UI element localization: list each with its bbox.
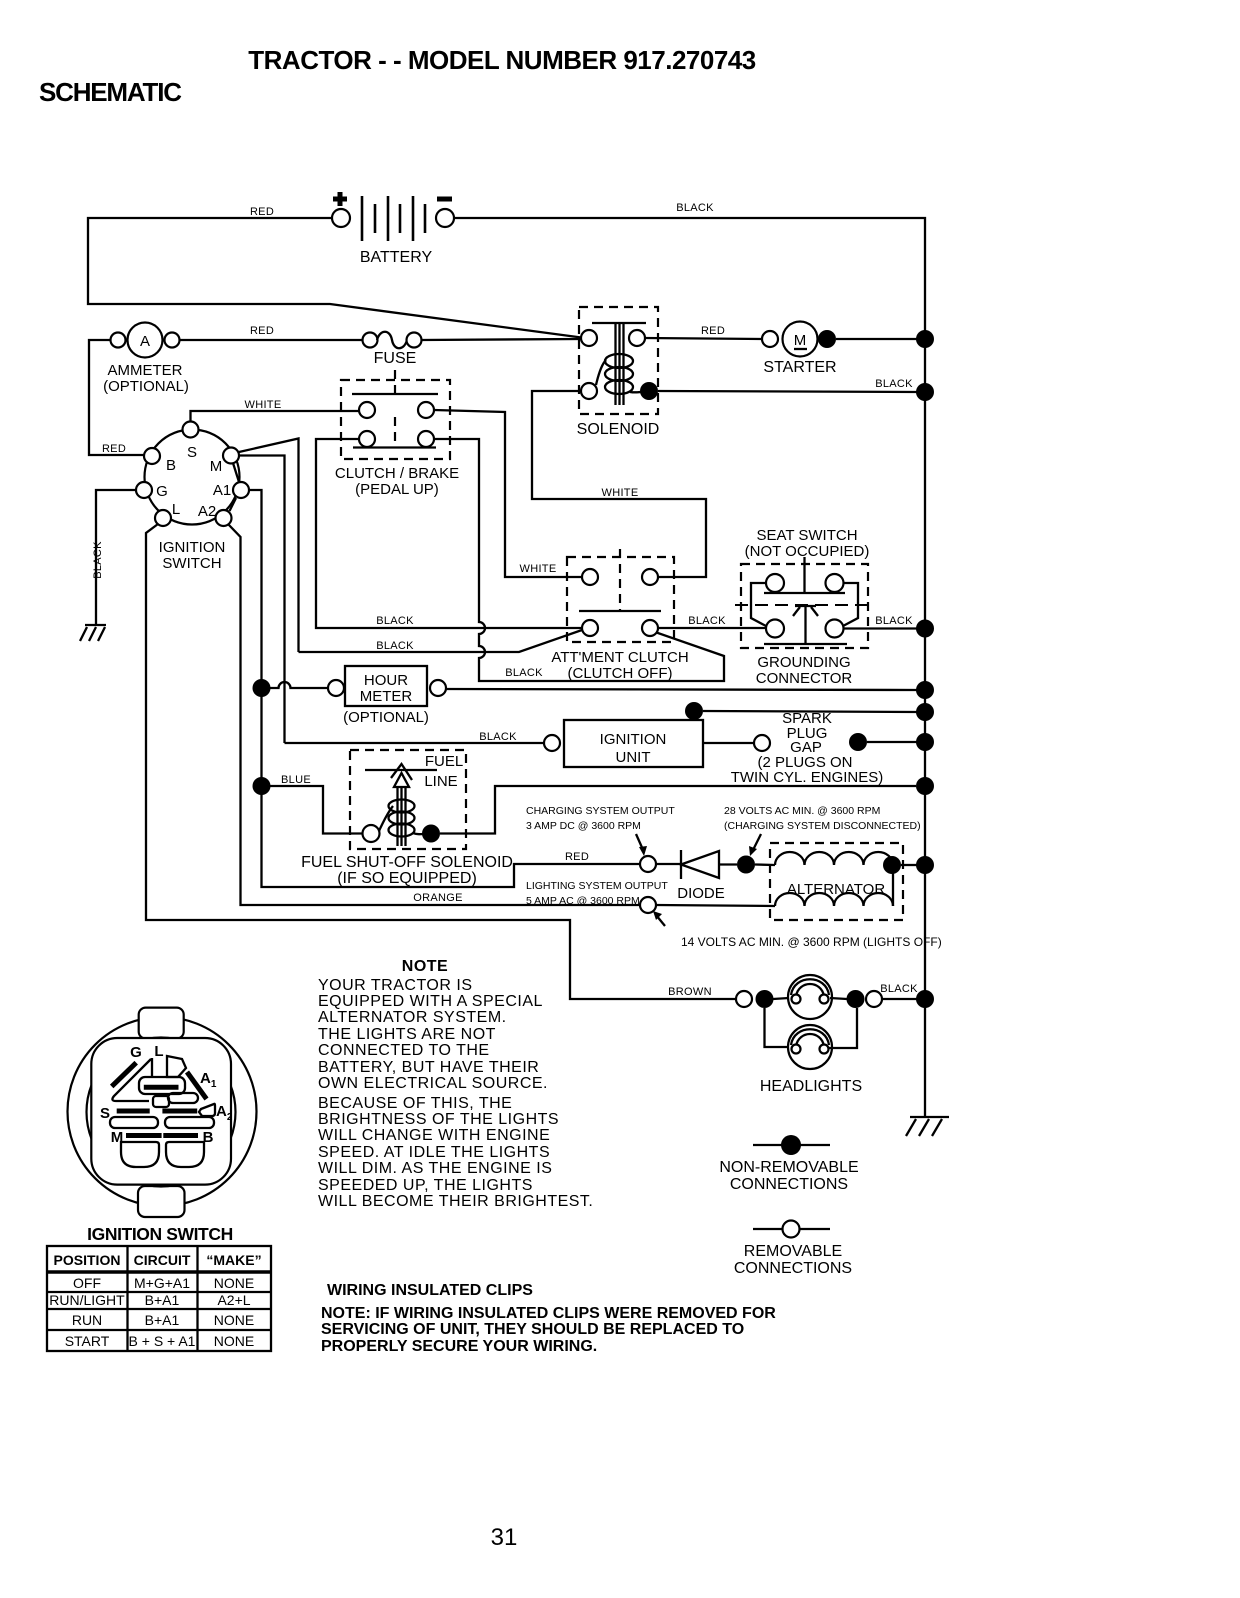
svg-text:S: S [187, 444, 197, 461]
svg-text:B: B [166, 457, 176, 474]
svg-text:(PEDAL UP): (PEDAL UP) [355, 481, 439, 498]
note text block [318, 958, 593, 1210]
wire battery negative BLACK to starter bus [454, 202, 925, 339]
svg-text:14 VOLTS AC MIN. @ 3600 RPM (L: 14 VOLTS AC MIN. @ 3600 RPM (LIGHTS OFF) [681, 935, 942, 949]
label wiring insulated clips [321, 1282, 776, 1355]
label lighting system output [526, 880, 668, 907]
svg-text:EQUIPPED WITH A SPECIAL: EQUIPPED WITH A SPECIAL [318, 993, 543, 1010]
svg-text:RED: RED [250, 206, 274, 218]
attachment clutch switch (clutch off) [551, 549, 688, 682]
headlight connector removable [736, 991, 752, 1007]
svg-text:SEAT SWITCH: SEAT SWITCH [756, 527, 857, 544]
svg-text:RED: RED [102, 443, 126, 455]
ground left [80, 625, 106, 641]
svg-text:IGNITION: IGNITION [600, 731, 667, 748]
svg-text:A2: A2 [198, 503, 216, 520]
svg-text:CHARGING SYSTEM OUTPUT: CHARGING SYSTEM OUTPUT [526, 805, 675, 817]
svg-text:BLACK: BLACK [688, 615, 726, 627]
wire M to A1 link [233, 463, 239, 482]
label 14 volts [653, 911, 942, 949]
clutch brake switch (pedal up) [335, 370, 459, 498]
headlight 2 [788, 1025, 832, 1069]
starter motor M [762, 322, 837, 377]
diode D1 [656, 850, 737, 902]
wire solenoid to starter RED [645, 325, 762, 339]
svg-text:SOLENOID: SOLENOID [577, 421, 660, 438]
svg-text:RUN: RUN [72, 1312, 102, 1328]
svg-text:B: B [203, 1129, 214, 1146]
svg-text:BLACK: BLACK [376, 615, 414, 627]
wire hour meter to bus [446, 689, 917, 690]
svg-text:(OPTIONAL): (OPTIONAL) [343, 709, 429, 726]
svg-text:M+G+A1: M+G+A1 [134, 1275, 190, 1291]
solenoid K1 [577, 307, 660, 438]
junction bus hour meter [916, 681, 934, 699]
legend removable connections [734, 1221, 852, 1278]
wire ignition unit output to spark gap [703, 735, 770, 751]
headlight connector removable right [866, 991, 882, 1007]
fuel shut-off solenoid [301, 750, 513, 887]
wire seat switch to bus BLACK [843, 615, 917, 629]
svg-text:CONNECTOR: CONNECTOR [756, 670, 853, 687]
wire G terminal BLACK to ground [92, 490, 136, 625]
battery BT1 [332, 192, 454, 266]
label spark plug gap [731, 710, 884, 786]
svg-text:BLACK: BLACK [376, 640, 414, 652]
svg-text:SPEEDED UP, THE LIGHTS: SPEEDED UP, THE LIGHTS [318, 1177, 533, 1194]
svg-text:BECAUSE OF THIS, THE: BECAUSE OF THIS, THE [318, 1095, 512, 1112]
wire solenoid coil to bus BLACK [658, 378, 917, 392]
junction diode alternator dot [737, 856, 755, 874]
svg-text:A2+L: A2+L [217, 1292, 250, 1308]
svg-text:(OPTIONAL): (OPTIONAL) [103, 378, 189, 395]
junction solenoid coil dot [640, 382, 658, 400]
wire fuel solenoid to bus [440, 786, 916, 834]
svg-text:REMOVABLE: REMOVABLE [744, 1243, 842, 1260]
svg-text:WHITE: WHITE [245, 399, 282, 411]
svg-text:WILL BECOME THEIR BRIGHTEST.: WILL BECOME THEIR BRIGHTEST. [318, 1193, 593, 1210]
fuse F1 [363, 332, 422, 367]
svg-text:HOUR: HOUR [364, 672, 408, 689]
junction bus starter [916, 330, 934, 348]
ignition switch SW1 (schematic) [136, 422, 249, 573]
svg-text:BLACK: BLACK [505, 667, 543, 679]
svg-text:ALTERNATOR: ALTERNATOR [787, 881, 886, 898]
wire attachment clutch to seat switch BLACK [658, 615, 767, 628]
wire M BLACK to attachment clutch [299, 630, 583, 679]
seat switch (not occupied) [735, 527, 875, 687]
svg-text:FUEL: FUEL [425, 753, 463, 770]
wire headlight to bus BLACK [880, 983, 918, 999]
svg-text:(IF SO EQUIPPED): (IF SO EQUIPPED) [337, 870, 477, 887]
svg-text:OFF: OFF [73, 1275, 101, 1291]
svg-text:STARTER: STARTER [763, 359, 836, 376]
wire M terminal to ignition unit feed [240, 456, 285, 744]
svg-text:WHITE: WHITE [602, 487, 639, 499]
wire M terminal diagonal to black wire [239, 439, 299, 653]
wire spark plug to bus [867, 741, 917, 743]
svg-text:M: M [210, 458, 223, 475]
svg-text:LINE: LINE [424, 773, 457, 790]
wire to headlight 1 [773, 998, 789, 999]
wire battery positive RED to solenoid [88, 206, 585, 338]
svg-text:L: L [154, 1043, 163, 1060]
svg-text:START: START [65, 1333, 110, 1349]
svg-text:BLACK: BLACK [479, 731, 517, 743]
svg-text:POSITION: POSITION [54, 1252, 121, 1268]
svg-text:YOUR TRACTOR IS: YOUR TRACTOR IS [318, 977, 472, 994]
wire A2 terminal ORANGE lighting feed [228, 524, 640, 905]
svg-text:CONNECTIONS: CONNECTIONS [730, 1176, 848, 1193]
charging output connector [640, 856, 656, 872]
wire alternator to bus [901, 864, 917, 866]
junction bus solenoid [916, 383, 934, 401]
svg-text:B+A1: B+A1 [145, 1312, 180, 1328]
wire ammeter to ignition switch B RED [89, 340, 144, 455]
svg-text:FUEL SHUT-OFF SOLENOID: FUEL SHUT-OFF SOLENOID [301, 854, 513, 871]
wire headlight 1 to right dot [830, 998, 847, 999]
svg-text:3 AMP DC @ 3600 RPM: 3 AMP DC @ 3600 RPM [526, 820, 641, 832]
wire ignition unit top to bus [703, 711, 917, 712]
wire solenoid to attachment clutch WHITE [532, 391, 706, 577]
svg-text:SPEED. AT IDLE THE LIGHTS: SPEED. AT IDLE THE LIGHTS [318, 1144, 550, 1161]
svg-text:WIRING INSULATED CLIPS: WIRING INSULATED CLIPS [327, 1282, 533, 1299]
alternator G1 [755, 843, 903, 920]
svg-text:A: A [140, 333, 150, 350]
svg-text:RED: RED [250, 325, 274, 337]
svg-text:(NOT OCCUPIED): (NOT OCCUPIED) [745, 543, 870, 560]
svg-text:“MAKE”: “MAKE” [206, 1252, 261, 1268]
svg-text:GROUNDING: GROUNDING [757, 654, 850, 671]
svg-text:NOTE: IF WIRING INSULATED CLIP: NOTE: IF WIRING INSULATED CLIPS WERE REM… [321, 1305, 776, 1322]
wire L terminal BROWN headlight feed [146, 524, 736, 999]
junction headlight left dot [756, 990, 774, 1008]
junction headlight right dot [847, 990, 865, 1008]
svg-text:A1: A1 [213, 482, 231, 499]
label charging system output [526, 805, 675, 856]
svg-text:BLACK: BLACK [875, 378, 913, 390]
svg-text:SWITCH: SWITCH [162, 555, 221, 572]
svg-text:IGNITION: IGNITION [159, 539, 226, 556]
svg-text:ORANGE: ORANGE [413, 892, 462, 904]
wire fuse to solenoid [421, 339, 581, 340]
svg-text:RED: RED [701, 325, 725, 337]
svg-text:M: M [794, 332, 807, 349]
ignition switch connector drawing [68, 1008, 257, 1244]
svg-text:DIODE: DIODE [677, 885, 725, 902]
svg-text:TWIN CYL. ENGINES): TWIN CYL. ENGINES) [731, 769, 884, 786]
table ignition switch positions [47, 1246, 271, 1351]
svg-text:IGNITION SWITCH: IGNITION SWITCH [87, 1224, 233, 1244]
headlight 1 [788, 975, 832, 1019]
wire clutch-brake bottom-left BLACK [316, 439, 582, 628]
ignition unit U1 [544, 720, 703, 767]
svg-text:AMMETER: AMMETER [108, 362, 183, 379]
svg-text:5 AMP AC @ 3600 RPM: 5 AMP AC @ 3600 RPM [526, 895, 640, 907]
svg-text:ATT'MENT CLUTCH: ATT'MENT CLUTCH [551, 649, 688, 666]
svg-text:CONNECTIONS: CONNECTIONS [734, 1260, 852, 1277]
junction bus ignition unit [916, 703, 934, 721]
svg-text:METER: METER [360, 688, 413, 705]
legend non-removable connections [719, 1135, 858, 1193]
svg-text:(CHARGING SYSTEM DISCONNECTED): (CHARGING SYSTEM DISCONNECTED) [724, 820, 921, 832]
junction fuel solenoid dot BLUE [253, 774, 311, 795]
svg-text:PROPERLY SECURE YOUR WIRING.: PROPERLY SECURE YOUR WIRING. [321, 1338, 597, 1355]
spark plug dot [849, 733, 867, 751]
svg-text:31: 31 [491, 1524, 518, 1551]
svg-text:(CLUTCH OFF): (CLUTCH OFF) [568, 665, 673, 682]
wire headlight 2 left drop [765, 1008, 792, 1047]
svg-text:L: L [172, 501, 180, 518]
svg-text:SERVICING OF UNIT, THEY SHOULD: SERVICING OF UNIT, THEY SHOULD BE REPLAC… [321, 1321, 744, 1338]
svg-text:CLUTCH / BRAKE: CLUTCH / BRAKE [335, 465, 459, 482]
svg-text:BLACK: BLACK [92, 541, 104, 579]
svg-text:CONNECTED TO THE: CONNECTED TO THE [318, 1042, 490, 1059]
junction starter dot [818, 330, 836, 348]
ground right [906, 1117, 949, 1136]
wire A1 terminal down to hour meter, fuel and diode RED [249, 490, 640, 887]
svg-text:TRACTOR - - MODEL NUMBER 917.2: TRACTOR - - MODEL NUMBER 917.270743 [248, 45, 755, 75]
svg-text:BLACK: BLACK [875, 615, 913, 627]
svg-text:M: M [111, 1129, 124, 1146]
svg-text:CIRCUIT: CIRCUIT [134, 1252, 191, 1268]
svg-text:HEADLIGHTS: HEADLIGHTS [760, 1078, 862, 1095]
hour meter (optional) [328, 666, 446, 726]
wire clutch-brake to attachment clutch WHITE [434, 410, 582, 577]
svg-text:BRIGHTNESS OF THE LIGHTS: BRIGHTNESS OF THE LIGHTS [318, 1111, 559, 1128]
svg-text:ALTERNATOR SYSTEM.: ALTERNATOR SYSTEM. [318, 1009, 507, 1026]
svg-text:RED: RED [565, 851, 589, 863]
svg-text:FUSE: FUSE [374, 350, 417, 367]
wire S terminal WHITE to clutch-brake [191, 399, 360, 422]
svg-text:NOTE: NOTE [402, 958, 448, 975]
svg-text:28 VOLTS AC MIN. @ 3600 RPM: 28 VOLTS AC MIN. @ 3600 RPM [724, 805, 880, 817]
svg-text:LIGHTING SYSTEM OUTPUT: LIGHTING SYSTEM OUTPUT [526, 880, 668, 892]
svg-text:S: S [100, 1105, 110, 1122]
svg-text:BATTERY: BATTERY [360, 249, 433, 266]
svg-text:NON-REMOVABLE: NON-REMOVABLE [719, 1159, 858, 1176]
svg-text:WHITE: WHITE [520, 563, 557, 575]
svg-text:RUN/LIGHT: RUN/LIGHT [49, 1292, 125, 1308]
label 28 volts [724, 805, 921, 856]
svg-text:NONE: NONE [214, 1333, 254, 1349]
svg-text:NONE: NONE [214, 1275, 254, 1291]
wire right ground bus [924, 339, 926, 1117]
svg-text:G: G [130, 1044, 142, 1061]
svg-text:BROWN: BROWN [668, 986, 712, 998]
junction bus alternator [916, 856, 934, 874]
svg-text:B+A1: B+A1 [145, 1292, 180, 1308]
svg-text:BATTERY, BUT HAVE THEIR: BATTERY, BUT HAVE THEIR [318, 1059, 539, 1076]
svg-text:UNIT: UNIT [616, 749, 651, 766]
wire hour meter feed with hop [270, 682, 328, 688]
wire A2 to A1 link [230, 498, 237, 511]
svg-text:BLUE: BLUE [281, 774, 311, 786]
junction bus headlight [916, 990, 934, 1008]
svg-text:WILL DIM. AS THE ENGINE IS: WILL DIM. AS THE ENGINE IS [318, 1160, 552, 1177]
svg-text:NONE: NONE [214, 1312, 254, 1328]
wire headlight 2 right drop [829, 1008, 857, 1048]
junction ignition unit top dot [685, 702, 703, 720]
junction bus fuel line [916, 777, 934, 795]
svg-text:BLACK: BLACK [676, 202, 714, 214]
svg-text:BLACK: BLACK [880, 983, 918, 995]
junction fuel solenoid output dot [422, 825, 440, 843]
lighting output connector [640, 897, 775, 913]
svg-text:OWN ELECTRICAL SOURCE.: OWN ELECTRICAL SOURCE. [318, 1075, 548, 1092]
junction alternator output dot [883, 856, 901, 874]
wire blue to fuel solenoid [270, 786, 362, 834]
svg-text:G: G [156, 483, 168, 500]
junction bus spark plug [916, 733, 934, 751]
svg-text:B + S + A1: B + S + A1 [129, 1333, 196, 1349]
svg-text:THE LIGHTS ARE NOT: THE LIGHTS ARE NOT [318, 1026, 496, 1043]
svg-text:SCHEMATIC: SCHEMATIC [39, 77, 182, 107]
svg-text:WILL CHANGE WITH ENGINE: WILL CHANGE WITH ENGINE [318, 1127, 550, 1144]
ammeter A (optional) [103, 323, 189, 396]
junction bus grounding connector [916, 620, 934, 638]
junction hour meter dot [253, 679, 271, 697]
wire clutch-brake bottom-right with hops [434, 439, 724, 681]
wire ammeter to fuse RED [180, 325, 362, 340]
wire ignition unit BLACK feed [285, 731, 545, 743]
wire starter to bus [836, 338, 917, 340]
